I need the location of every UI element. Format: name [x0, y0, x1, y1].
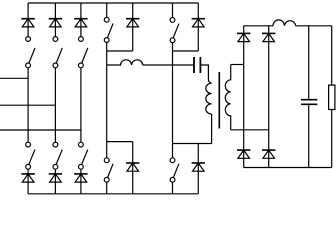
wire: output rectifier leg 2 vertical	[268, 26, 270, 168]
switch S9	[104, 142, 113, 194]
wire: C2 bottom lead	[308, 105, 310, 167]
diode D7	[49, 174, 62, 182]
diode D9 (parallel with S9)	[126, 142, 139, 194]
wire: R1 top lead	[331, 26, 333, 85]
wire: node M2 join	[107, 141, 133, 143]
switch S8	[79, 142, 88, 169]
wire: L1 to C1 (crosses right bridge leg)	[143, 64, 194, 66]
diode D1	[21, 19, 34, 27]
diode D4 (parallel with S4)	[126, 3, 139, 51]
switch S3	[79, 37, 88, 68]
switch S4	[104, 17, 113, 42]
wire: phase B input line	[0, 104, 55, 106]
wire: bridge right leg stub (bus to S5)	[172, 3, 174, 18]
diode D10 (parallel with S10)	[192, 144, 205, 194]
wire: node M4 join (to primary return)	[173, 143, 212, 145]
wire: D5 bottom join to node M3	[173, 50, 199, 52]
wire: phase C input line	[0, 129, 81, 131]
wire: D4 bottom join to node M1	[107, 50, 133, 52]
wire: L2 to load branch	[296, 25, 332, 27]
switch S7	[53, 142, 62, 169]
transformer T1 primary winding	[206, 79, 212, 114]
wire: secondary bottom lead to rectifier node (crosses first rectifier leg)	[231, 129, 269, 131]
transformer T1 core	[218, 72, 220, 129]
diode D2	[49, 19, 62, 27]
wire: top DC bus (node P)	[28, 2, 198, 4]
resistor R1 (load)	[329, 85, 335, 109]
wire: bottom DC bus (node N)	[28, 193, 198, 195]
switch S10	[170, 144, 179, 194]
diode D12	[262, 33, 275, 41]
wire: output negative rail (rectifier bottom)	[244, 167, 332, 169]
wire: leg 2 bottom lead (S7 through D7 to bottom bus)	[54, 169, 56, 194]
inductor L2	[273, 20, 296, 26]
wire: R1 bottom lead	[331, 110, 333, 168]
wire: leg 1 bottom lead (S6 through D6 to bottom bus)	[27, 169, 29, 194]
switch S2	[53, 37, 62, 68]
diode D5 (parallel with S5)	[192, 3, 205, 51]
wire: secondary top lead to rectifier node	[231, 64, 244, 66]
wire: primary bottom lead to node M4	[211, 114, 213, 143]
wire: leg 3 bottom lead (S8 through D8 to bottom bus)	[80, 169, 82, 194]
switch S1	[26, 37, 35, 68]
wire: phase A input line	[0, 77, 28, 79]
capacitor C1 (series blocking)	[194, 57, 200, 73]
wire: leg 3 top lead (bus to D3 to S3)	[80, 3, 82, 37]
diode D11	[237, 33, 250, 41]
diode D6	[21, 174, 34, 182]
wire: output positive rail (rectifier top)	[244, 25, 273, 27]
wire: leg 2 top lead (bus to D2 to S2)	[54, 3, 56, 37]
wire: bridge left leg stub (bus to S4)	[106, 3, 108, 17]
diode D13	[237, 150, 250, 158]
diode D14	[262, 150, 275, 158]
transformer T1 secondary winding	[225, 65, 230, 130]
switch S6	[26, 142, 35, 169]
wire: leg 1 top lead (bus to D1 to S1)	[27, 3, 29, 37]
wire: C1 to transformer primary top	[200, 65, 208, 79]
diode D3	[74, 19, 87, 27]
wire: bridge left leg vertical (node M1 down to node M2)	[106, 42, 108, 141]
switch S5	[170, 18, 179, 43]
wire: output rectifier leg 1 vertical	[243, 26, 245, 168]
wire: C2 top lead	[308, 26, 310, 99]
wire: leg 3 vertical (S3 to S8, taps phase C)	[80, 68, 82, 142]
wire: leg 2 vertical (S2 to S7, taps phase B)	[54, 68, 56, 142]
diode D8	[74, 174, 87, 182]
wire: bridge right leg vertical (node M3 down to node M4, crosses L1-C1 line)	[172, 43, 174, 144]
inductor L1	[107, 60, 143, 65]
capacitor C2 (output filter)	[301, 100, 317, 105]
wire: leg 1 vertical (S1 to S6, taps phase A)	[27, 68, 29, 142]
